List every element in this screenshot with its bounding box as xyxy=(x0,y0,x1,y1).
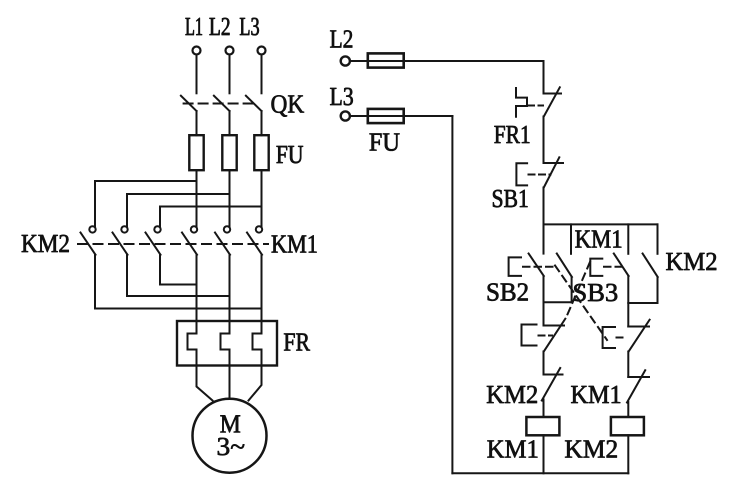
wire L2 terminal to corner xyxy=(350,60,544,62)
wire FR to motor lead 3 xyxy=(249,366,262,401)
SB3 NC actuator (E) xyxy=(522,325,537,346)
wire L3 terminal right xyxy=(350,115,452,117)
switch QK pole 1 blade xyxy=(181,96,197,111)
SB3 NC actuator link dashed xyxy=(539,335,553,337)
fuse FU control L2 xyxy=(368,53,404,67)
label KM1 (coil) xyxy=(487,440,537,457)
motor letter M xyxy=(220,415,240,432)
terminal L2 control xyxy=(341,56,350,65)
wire SB2 down xyxy=(543,276,545,326)
terminal L2 xyxy=(226,47,234,55)
SB2 NC actuator (E) xyxy=(603,327,615,348)
contact FR1 fixed line xyxy=(544,93,562,95)
label SB3 xyxy=(574,284,617,302)
wire branch L3 to KM2 contact 3 xyxy=(160,207,262,227)
label FU (main fuses) xyxy=(277,146,304,163)
button SB2 NO blade xyxy=(529,254,544,277)
FR1 thermal actuator symbol xyxy=(516,88,527,117)
wire FR1 to SB1 xyxy=(543,117,545,164)
button SB2 NC blade xyxy=(629,320,650,352)
node L2 (control) label xyxy=(330,30,352,47)
button SB2 NC fixed line (right branch) xyxy=(628,326,649,328)
interlock KM1 NC fixed line xyxy=(628,376,649,378)
wire KM2 contact2 down xyxy=(126,255,128,296)
node L2 label xyxy=(210,18,230,35)
coil KM1 xyxy=(526,417,559,435)
thermal relay FR box xyxy=(177,321,277,366)
label KM2 (coil) xyxy=(565,440,617,457)
contact KM2 aux blade xyxy=(643,254,658,278)
wire fuse1 down to KM1 contact 1 xyxy=(196,170,198,226)
contact FR1 blade xyxy=(544,87,560,116)
node L3 label xyxy=(240,18,259,36)
mechanical link dashed across KM2/KM1 main contacts xyxy=(78,243,268,245)
wire KM1 aux down xyxy=(571,277,573,302)
fuse FU control L3 xyxy=(368,109,404,123)
wire KM2 aux down xyxy=(657,277,659,303)
SB2 actuator link dashed xyxy=(523,266,554,268)
wire branch L1 to KM2 contact 1 xyxy=(95,181,197,226)
FR heater element 3 xyxy=(253,321,262,366)
label KM1 (aux latch contact) xyxy=(575,230,621,247)
label KM2 (main contacts) xyxy=(22,235,69,252)
button SB1 fixed line xyxy=(544,162,564,164)
wire drop to KM1 aux contact xyxy=(570,224,572,253)
interlock KM2 NC fixed line xyxy=(544,374,563,376)
label KM1 (main contacts) xyxy=(272,235,317,252)
wire drop to KM2 aux contact xyxy=(657,224,659,253)
switch QK pole 3 blade xyxy=(246,96,262,111)
wire crossover KM2-1 to L3 column xyxy=(95,308,262,310)
node L3 (control) label xyxy=(330,88,353,106)
FR1 actuator link dashed xyxy=(528,105,543,107)
button SB1 actuator (E) xyxy=(516,163,527,185)
wire FR to motor lead 2 xyxy=(229,366,231,399)
contactor KM2 contact 1 fixed terminal xyxy=(89,226,95,232)
wire SB1 to rail xyxy=(543,188,545,225)
wire KM2 NC to coil KM1 xyxy=(543,400,545,418)
node L1 label xyxy=(186,18,203,35)
wire QK pole1 to fuse xyxy=(196,111,198,135)
contactor KM1 contact 3 blade xyxy=(247,233,262,255)
label KM2 (aux latch contact) xyxy=(666,253,716,270)
wire KM1 contact2 down to FR xyxy=(229,255,231,321)
wire QK pole3 to fuse xyxy=(261,111,263,135)
wire SB3 down xyxy=(627,276,629,327)
label KM2 (interlock) xyxy=(487,386,537,403)
wire fuse3 down to KM1 contact 3 xyxy=(261,170,263,226)
terminal L1 xyxy=(193,47,201,55)
interlock KM1 NC blade xyxy=(627,370,645,402)
contactor KM1 contact 2 blade xyxy=(215,233,230,255)
wire left branch row2 to row3 xyxy=(543,352,545,375)
FR heater element 2 xyxy=(221,321,230,366)
wire join SB2/KM1aux xyxy=(544,301,572,303)
button SB3 NO blade xyxy=(614,254,629,277)
label KM1 (interlock) xyxy=(571,386,620,403)
fuse FU phase2 xyxy=(222,135,236,170)
wire L1 to QK xyxy=(196,55,198,94)
contactor KM2 contact 2 fixed terminal xyxy=(121,226,127,232)
wire coil KM2 to bottom rail xyxy=(627,435,629,473)
interlock KM2 NC blade xyxy=(542,368,560,401)
contactor KM2 contact 3 blade xyxy=(146,233,161,255)
label FU (control fuses) xyxy=(370,134,400,151)
wire join SB3/KM2aux xyxy=(628,302,657,304)
wire KM1 NC to coil KM2 xyxy=(627,402,629,417)
wire KM1 contact3 down to FR xyxy=(261,255,263,321)
contactor KM1 contact 1 blade xyxy=(182,233,197,255)
motor 3~ label xyxy=(218,438,245,456)
terminal L3 xyxy=(258,47,266,55)
motor M circle xyxy=(193,399,267,473)
wire corner down to FR1 xyxy=(543,61,545,94)
wire top rail of parallel branches xyxy=(544,223,658,225)
fuse FU phase1 xyxy=(189,135,203,170)
contactor KM1 contact 2 fixed terminal xyxy=(224,226,230,232)
label FR xyxy=(284,334,310,351)
contactor KM2 contact 2 blade xyxy=(113,233,128,255)
wire L3 to QK xyxy=(261,55,263,94)
wire FR to motor lead 1 xyxy=(197,366,213,401)
button SB1 blade xyxy=(544,157,560,187)
wire KM1 contact1 down to FR xyxy=(196,255,198,321)
wire QK pole2 to fuse xyxy=(229,111,231,135)
wire KM2-2 to L2 column xyxy=(127,295,230,297)
switch QK mechanical link (dashed) xyxy=(184,103,257,105)
switch QK pole 2 blade xyxy=(214,96,230,111)
contactor KM2 contact 1 blade xyxy=(81,233,96,255)
wire L2 to QK xyxy=(229,55,231,94)
wire KM2 contact3 down xyxy=(159,255,161,285)
label SB1 xyxy=(493,190,528,208)
SB3 actuator link dashed xyxy=(604,266,622,268)
wire bottom rail xyxy=(452,472,628,474)
terminal L3 control xyxy=(341,111,350,120)
wire crossover KM2-3 to L1 column xyxy=(160,284,197,286)
SB2 NC actuator link dashed xyxy=(617,337,626,339)
label SB2 xyxy=(488,283,528,301)
FR heater element 1 xyxy=(188,321,197,366)
wire drop to SB3 contact xyxy=(627,224,629,253)
SB1 actuator link dashed xyxy=(529,174,551,176)
wire rail down to SB2 xyxy=(543,224,545,253)
fuse FU phase3 xyxy=(254,135,268,170)
button SB3 NC blade xyxy=(544,319,566,352)
contactor KM1 contact 3 fixed terminal xyxy=(256,226,262,232)
mechanical link SB2 to its NC (dashed diagonal) xyxy=(555,266,607,341)
coil KM2 xyxy=(611,417,644,435)
contactor KM1 contact 1 fixed terminal xyxy=(191,226,197,232)
wire coil KM1 to bottom rail xyxy=(543,435,545,473)
wire branch L2 to KM2 contact 2 xyxy=(127,194,230,226)
label QK xyxy=(272,95,305,116)
wire right branch row2 to row3 xyxy=(627,352,629,378)
contact KM1 aux blade xyxy=(557,254,572,278)
button SB3 actuator (E) xyxy=(590,259,602,276)
button SB3 NC fixed line (left branch) xyxy=(544,325,565,327)
mechanical link SB3 to its NC (dashed diagonal) xyxy=(566,262,591,319)
wire fuse2 down to KM1 contact 2 xyxy=(229,170,231,226)
wire KM2 contact1 down xyxy=(94,255,96,309)
wire left return conductor (long vertical) xyxy=(451,116,453,473)
contactor KM2 contact 3 fixed terminal xyxy=(154,226,160,232)
label FR1 xyxy=(494,126,529,143)
button SB2 actuator (E) xyxy=(509,257,521,276)
